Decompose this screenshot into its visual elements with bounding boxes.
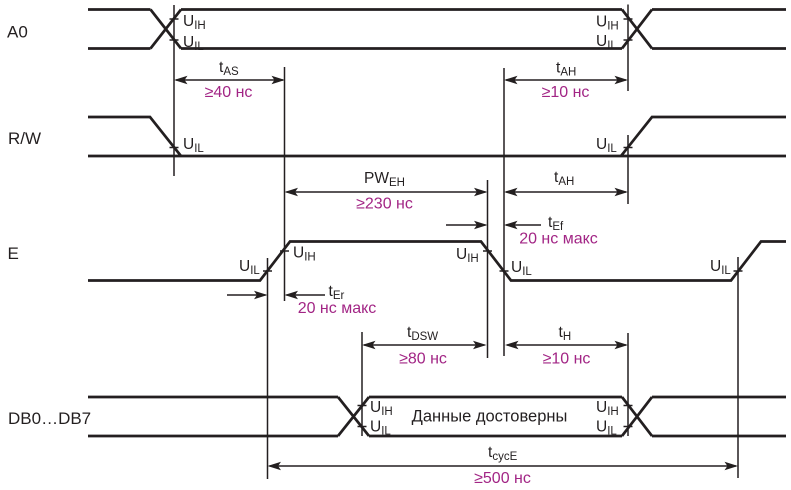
svg-text:tcycE: tcycE: [488, 444, 518, 463]
dimension t_DSW arrow: [362, 341, 487, 350]
dimension t_AH arrow (second): [504, 188, 628, 197]
wire R/W waveform: [88, 117, 786, 156]
dimension t_Ef arrows: [446, 221, 541, 230]
svg-text:Данные достоверны: Данные достоверны: [412, 408, 568, 426]
wire DB0...DB7 bus waveform: [88, 397, 786, 436]
svg-text:UIL: UIL: [370, 419, 391, 438]
tick U_IH on line 174: [170, 18, 179, 20]
dimension PW_EH arrow: [285, 188, 488, 197]
wire E waveform: [88, 242, 786, 281]
tick E 2nd rising U_IL: [734, 270, 743, 272]
svg-text:tDSW: tDSW: [407, 324, 438, 343]
svg-text:tAH: tAH: [554, 169, 574, 188]
svg-text:≥500 нс: ≥500 нс: [474, 470, 531, 487]
tick A0 right U_IH: [624, 18, 633, 20]
measurement line at E falling U_IL (x=504): [503, 68, 505, 356]
measurement line x=628 lower (DB crossing): [627, 333, 629, 436]
svg-text:UIH: UIH: [596, 399, 619, 418]
svg-text:tH: tH: [559, 324, 572, 343]
svg-text:A0: A0: [7, 23, 28, 42]
svg-text:UIH: UIH: [370, 399, 393, 418]
svg-text:UIL: UIL: [596, 419, 617, 438]
wire A0 bus waveform: [88, 10, 786, 49]
tick U_IL on line 174: [170, 39, 179, 41]
dimension t_AS arrow: [174, 76, 285, 85]
measurement line at E rising U_IL (x=267.5): [267, 258, 269, 479]
tick DB right U_IH: [624, 405, 633, 407]
tick R/W U_IL on line 174: [170, 147, 179, 149]
svg-text:UIL: UIL: [710, 258, 731, 277]
measurement line at A0 valid (x=174): [173, 5, 175, 176]
svg-text:UIH: UIH: [456, 246, 479, 265]
svg-text:UIH: UIH: [293, 245, 316, 264]
svg-text:R/W: R/W: [8, 129, 41, 148]
svg-text:≥10 нс: ≥10 нс: [543, 351, 591, 368]
svg-text:UIL: UIL: [596, 33, 617, 52]
tick DB left U_IL: [358, 426, 367, 428]
tick A0 right U_IL: [624, 39, 633, 41]
svg-text:UIL: UIL: [596, 136, 617, 155]
svg-text:≥40 нс: ≥40 нс: [205, 84, 253, 101]
svg-text:DB0…DB7: DB0…DB7: [8, 409, 91, 428]
svg-text:UIH: UIH: [183, 13, 206, 32]
svg-text:UIL: UIL: [183, 34, 204, 53]
tick DB left U_IH: [358, 405, 367, 407]
tick E rising U_IL: [263, 270, 272, 272]
dimension t_AH arrow (top): [504, 76, 628, 85]
svg-text:UIL: UIL: [183, 136, 204, 155]
measurement line at E falling U_IH (x=487.5): [487, 180, 489, 358]
svg-text:UIL: UIL: [511, 259, 532, 278]
tick DB right U_IL: [624, 426, 633, 428]
dimension t_cycE arrow: [268, 462, 739, 471]
tick R/W rising U_IL: [624, 147, 633, 149]
dimension t_H arrow: [505, 341, 628, 350]
svg-text:tAH: tAH: [556, 60, 576, 79]
svg-text:≥80 нс: ≥80 нс: [399, 351, 447, 368]
measurement line at E rising U_IH (x=284.5): [284, 67, 286, 301]
svg-text:≥10 нс: ≥10 нс: [542, 84, 590, 101]
svg-text:PWEH: PWEH: [364, 170, 405, 189]
svg-text:tAS: tAS: [219, 59, 239, 78]
svg-text:UIH: UIH: [596, 14, 619, 33]
svg-text:E: E: [8, 244, 19, 263]
svg-text:UIL: UIL: [239, 258, 260, 277]
tick E falling U_IH: [483, 250, 492, 252]
svg-text:≥230 нс: ≥230 нс: [356, 196, 413, 213]
tick E rising U_IH: [280, 250, 289, 252]
measurement line at DB valid (x=362): [361, 332, 363, 436]
measurement line x=628 middle (R/W edge, t_AH): [627, 135, 629, 204]
dimension t_Er arrows: [227, 291, 325, 300]
svg-text:20 нс макс: 20 нс макс: [298, 300, 377, 317]
measurement line at A0 change / DB change (x=628 upper): [627, 5, 629, 92]
measurement line at E 2nd rising U_IL (x=738): [737, 257, 739, 478]
svg-text:20 нс макс: 20 нс макс: [519, 231, 598, 248]
tick E falling U_IL: [500, 270, 509, 272]
